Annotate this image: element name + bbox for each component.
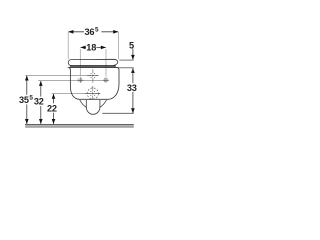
extension line right (36.5 dim): [117, 32, 119, 59]
outlet bottom arc: [86, 107, 100, 114]
centerline node B (32 level): [38, 80, 108, 82]
svg-text:32: 32: [34, 97, 44, 107]
fixing hole right: [103, 77, 109, 83]
extension line right (18 dim): [105, 49, 107, 77]
outlet pipe right wall: [99, 100, 101, 108]
seat profile (top slot): [68, 59, 118, 65]
outlet shroud right chamfer: [100, 100, 107, 107]
svg-text:5: 5: [129, 40, 134, 50]
extension line left (18 dim): [79, 49, 81, 77]
centerline node A (35.5 level): [26, 74, 99, 76]
dimension 36.5: [68, 31, 118, 33]
dimension 32 (left): [40, 81, 42, 124]
dimension 22 (left): [53, 94, 55, 124]
ceramic body outline: [69, 67, 119, 99]
outlet hole dashed circle: [87, 88, 98, 99]
svg-text:22: 22: [47, 103, 57, 113]
svg-text:36: 36: [85, 27, 95, 37]
outlet shroud left chamfer: [80, 100, 87, 107]
dimension 35.5 (left): [26, 76, 28, 124]
wall hatch bar: [25, 125, 134, 128]
svg-text:33: 33: [127, 83, 137, 93]
outlet bottom reference line: [102, 112, 133, 114]
extension line left (36.5 dim): [67, 32, 69, 59]
dimension 5 (right): [119, 59, 133, 61]
centerline node C (22 level): [52, 93, 101, 95]
outlet crosshair: [85, 86, 100, 100]
fixing hole left: [77, 77, 83, 83]
water supply marker (center cross): [87, 69, 98, 83]
outlet pipe left wall: [85, 100, 87, 108]
svg-text:18: 18: [86, 43, 96, 53]
seat lower edge (thick): [70, 65, 116, 67]
wall line: [25, 123, 134, 125]
dimension 33 (right): [132, 68, 134, 113]
ceramic rim top edge: [68, 66, 119, 68]
dimension 18: [81, 46, 106, 48]
svg-text:35: 35: [19, 95, 29, 105]
